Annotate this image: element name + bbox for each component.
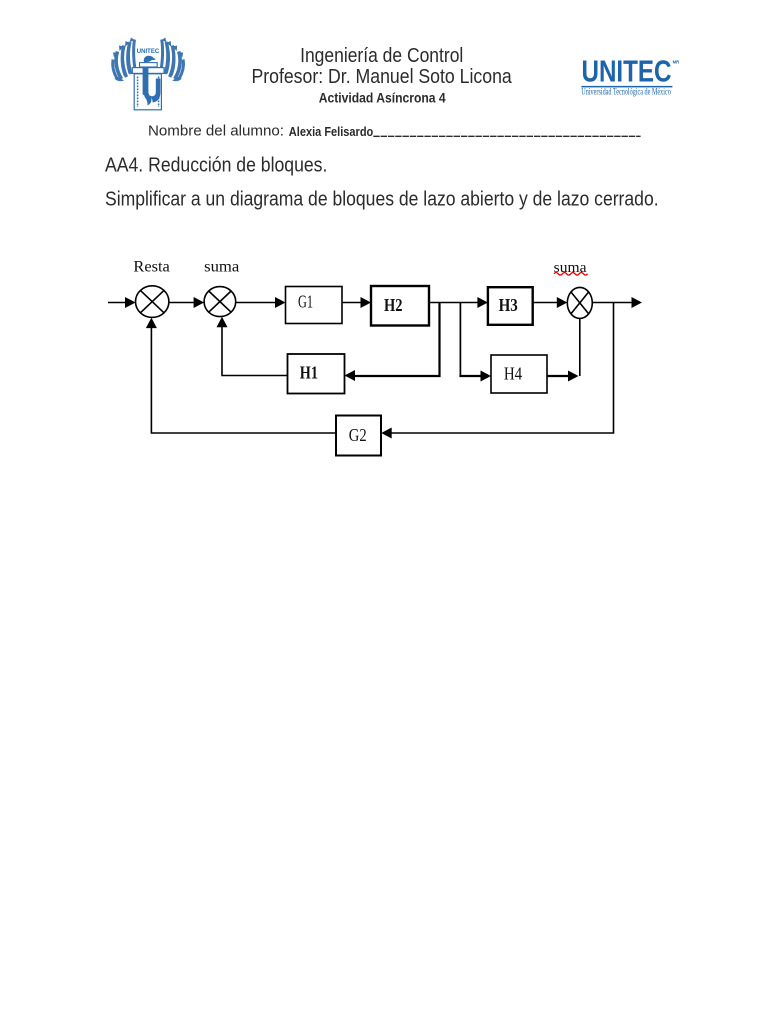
svg-text:UNITEC: UNITEC (137, 48, 160, 55)
svg-text:UNITEC: UNITEC (582, 55, 672, 89)
svg-text:suma: suma (204, 259, 239, 276)
svg-text:G1: G1 (298, 292, 313, 312)
svg-text:Simplificar a un diagrama de b: Simplificar a un diagrama de bloques de … (105, 189, 659, 211)
svg-text:MR: MR (673, 59, 680, 64)
svg-text:H4: H4 (504, 363, 522, 383)
svg-text:H2: H2 (384, 295, 403, 315)
svg-text:Profesor: Dr. Manuel Soto Lico: Profesor: Dr. Manuel Soto Licona (251, 66, 512, 88)
svg-text:Ingeniería de Control: Ingeniería de Control (300, 45, 463, 67)
svg-text:G2: G2 (349, 425, 367, 445)
svg-text:H3: H3 (499, 295, 518, 315)
svg-text:Alexia Felisardo: Alexia Felisardo (289, 124, 374, 139)
svg-text:Nombre del alumno:: Nombre del alumno: (148, 123, 284, 140)
svg-text:AA4. Reducción de bloques.: AA4. Reducción de bloques. (105, 155, 327, 177)
svg-text:Universidad Tecnológica de Méx: Universidad Tecnológica de México (581, 87, 671, 97)
svg-text:Actividad Asíncrona 4: Actividad Asíncrona 4 (319, 90, 446, 106)
svg-text:Resta: Resta (133, 259, 169, 276)
svg-text:H1: H1 (300, 362, 318, 382)
